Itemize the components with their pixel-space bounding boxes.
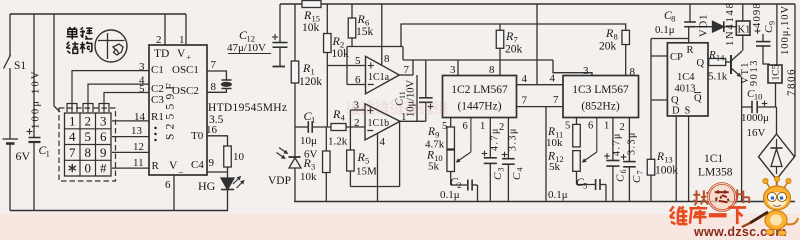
svg-text:7806: 7806 bbox=[786, 68, 798, 96]
svg-text:Q: Q bbox=[694, 93, 702, 104]
C11 plus bbox=[428, 106, 434, 108]
wire - left rail upper segment bbox=[9, 14, 11, 56]
svg-text:4: 4 bbox=[380, 136, 386, 148]
svg-text:1C1b: 1C1b bbox=[368, 118, 390, 129]
svg-text:_: _ bbox=[178, 164, 184, 174]
wire - crystal to OSC2 bbox=[207, 89, 226, 93]
wire - node A to C1cap bbox=[295, 126, 308, 128]
svg-text:100μ 10V: 100μ 10V bbox=[31, 69, 42, 129]
wire - D stub bbox=[675, 116, 677, 202]
svg-text:C: C bbox=[615, 174, 627, 182]
svg-text:4: 4 bbox=[550, 73, 556, 85]
resistor R14 (5.1k) bbox=[709, 59, 726, 66]
label R1 bbox=[302, 61, 315, 77]
svg-text:R1: R1 bbox=[151, 111, 164, 123]
C4 plus bbox=[502, 154, 508, 156]
capacitor C10 (1000μ) bbox=[751, 101, 753, 113]
capacitor C1 plus bbox=[27, 131, 33, 133]
svg-text:47μ/10V: 47μ/10V bbox=[227, 42, 266, 54]
label R4 bbox=[332, 107, 345, 123]
wire - R1 to node A bbox=[294, 83, 296, 127]
svg-text:2: 2 bbox=[85, 113, 92, 128]
svg-text:10: 10 bbox=[233, 151, 245, 163]
svg-text:1: 1 bbox=[311, 115, 315, 125]
svg-text:2: 2 bbox=[156, 34, 162, 46]
potentiometer R12 (5k) bbox=[573, 151, 581, 172]
capacitor C1 (10μ) bbox=[307, 121, 309, 133]
svg-text:8: 8 bbox=[85, 145, 92, 160]
svg-text:C3: C3 bbox=[151, 94, 164, 106]
wire - keypad row to chip pin 14 bbox=[112, 120, 149, 122]
wire - IC1a power pin bbox=[381, 4, 383, 65]
svg-text:3: 3 bbox=[311, 162, 315, 172]
svg-text:C: C bbox=[763, 25, 775, 33]
svg-text:6: 6 bbox=[588, 121, 593, 132]
photodiode VDP bbox=[294, 127, 296, 157]
svg-text:120k: 120k bbox=[299, 76, 322, 88]
pin 4 stub (IC1b) bbox=[377, 134, 379, 202]
svg-text:7: 7 bbox=[553, 94, 559, 106]
svg-text:C: C bbox=[492, 172, 504, 180]
svg-text:1000μ: 1000μ bbox=[741, 112, 769, 124]
pin 6 wire (V-) bbox=[173, 175, 175, 211]
svg-text:9: 9 bbox=[768, 21, 777, 25]
svg-text:C: C bbox=[631, 175, 643, 183]
svg-text:1.2k: 1.2k bbox=[328, 136, 348, 148]
wire - feedback line bbox=[347, 46, 403, 48]
label 结构 (second line) bbox=[66, 42, 78, 54]
wire - DC node bbox=[742, 106, 752, 108]
svg-text:5.1k: 5.1k bbox=[708, 71, 728, 83]
svg-text:15M: 15M bbox=[356, 166, 377, 178]
svg-text:4: 4 bbox=[340, 113, 345, 123]
svg-text:0.1μ: 0.1μ bbox=[655, 24, 675, 36]
wire - output pull-up line bbox=[401, 24, 626, 47]
wire - R6 to feedback line bbox=[351, 38, 353, 47]
svg-text:R: R bbox=[708, 49, 716, 61]
resistor 10 (HG limiter) bbox=[224, 146, 232, 167]
svg-text:13: 13 bbox=[131, 125, 143, 137]
svg-text:VD1: VD1 bbox=[699, 14, 710, 37]
wire - keypad col1 to chip pin bbox=[72, 71, 149, 113]
svg-text:9013: 9013 bbox=[749, 59, 760, 86]
wire - T0 to resistor bbox=[207, 136, 228, 146]
wire - R1 column from rail bbox=[294, 4, 296, 61]
svg-text:6V: 6V bbox=[16, 149, 31, 163]
relay K1 bbox=[742, 4, 744, 21]
svg-text:Q: Q bbox=[671, 95, 679, 106]
svg-text:0.1μ: 0.1μ bbox=[548, 189, 568, 201]
single-key icon circle bbox=[95, 30, 127, 62]
diode VD1 1N4148 bbox=[696, 26, 713, 28]
wire - keypad row to chip pin 12 bbox=[112, 151, 149, 153]
wire - pins 7 link bbox=[517, 106, 564, 108]
svg-text:0.1μ: 0.1μ bbox=[440, 189, 460, 201]
svg-text:6: 6 bbox=[463, 121, 468, 132]
svg-text:13: 13 bbox=[664, 155, 673, 165]
wire - keypad row to chip pin 11 bbox=[112, 167, 149, 169]
wire - rail corner to regulator bbox=[776, 4, 778, 65]
LED HG arrows bbox=[233, 177, 241, 185]
capacitor C9 bbox=[755, 30, 761, 32]
crystal X1 bbox=[222, 79, 232, 81]
resistor R4 (1.2k) bbox=[331, 124, 346, 131]
keypad column 1 tab bbox=[67, 104, 77, 113]
keypad cell grid bbox=[65, 113, 112, 176]
svg-text:7: 7 bbox=[404, 64, 410, 76]
watermark circle logo bbox=[693, 190, 708, 205]
wire - V+ drop to pins 4 bbox=[536, 4, 538, 85]
IC U1 S2559F box bbox=[149, 45, 207, 175]
pin 3 wire (IC1b) bbox=[350, 109, 365, 111]
capacitor C1 bbox=[29, 137, 41, 139]
svg-text:R: R bbox=[687, 45, 694, 56]
wire - Q lower stub bbox=[651, 99, 667, 101]
capacitor C4 (3.3μ) bbox=[507, 118, 509, 159]
svg-text:1C2 LM567: 1C2 LM567 bbox=[451, 84, 508, 96]
svg-text:11: 11 bbox=[133, 157, 144, 169]
resistor R5 (15M) bbox=[349, 110, 351, 150]
svg-text:4.7μ: 4.7μ bbox=[612, 132, 623, 156]
svg-text:14: 14 bbox=[716, 53, 725, 63]
svg-text:1: 1 bbox=[310, 67, 314, 77]
label R10 bbox=[426, 150, 443, 164]
wire - keypad col2 to chip pin bbox=[88, 84, 149, 113]
wire - R2 to node B bbox=[326, 53, 328, 128]
svg-text:3.3μ: 3.3μ bbox=[508, 127, 519, 151]
svg-text:6: 6 bbox=[165, 179, 171, 191]
bridge rectifier bbox=[759, 134, 795, 179]
svg-text:14: 14 bbox=[134, 111, 146, 123]
label R7 bbox=[505, 29, 518, 45]
chip ellipsis dots bbox=[154, 127, 156, 129]
svg-text:20k: 20k bbox=[599, 41, 617, 53]
capacitor C2 (0.1μ) bbox=[450, 172, 452, 186]
svg-text:R: R bbox=[427, 126, 435, 138]
wire - feedback to output bus bbox=[402, 47, 404, 61]
svg-text:5k: 5k bbox=[549, 161, 561, 173]
label C1 (10u) bbox=[304, 109, 316, 125]
label R9 bbox=[427, 126, 439, 140]
wire - pin9 C4 to LED node bbox=[207, 171, 228, 173]
svg-text:1C1a: 1C1a bbox=[368, 72, 390, 83]
C10 plus bbox=[762, 103, 768, 105]
svg-text:10k: 10k bbox=[546, 137, 563, 149]
capacitor C12 plus bbox=[272, 36, 278, 38]
wire - IC1a output bbox=[399, 74, 413, 76]
wire - OSC1 to crystal bbox=[207, 71, 226, 80]
wire - resistor to LED node bbox=[227, 167, 229, 178]
svg-text:3: 3 bbox=[139, 61, 145, 73]
label C5 bbox=[576, 177, 587, 191]
IC1a minus sign bbox=[368, 84, 374, 86]
wire - keypad row to chip pin 13 bbox=[112, 136, 149, 138]
C7 plus bbox=[621, 156, 627, 158]
svg-text:8: 8 bbox=[671, 14, 675, 24]
label R8 bbox=[605, 26, 618, 42]
svg-text:4.7μ: 4.7μ bbox=[490, 127, 501, 151]
svg-text:4: 4 bbox=[522, 73, 528, 85]
wire - CP stub bbox=[651, 55, 667, 57]
wire - R2 from rail bbox=[326, 4, 328, 34]
label R5 bbox=[357, 150, 370, 166]
wire - pins 7 to ground bbox=[545, 107, 547, 202]
svg-text:V: V bbox=[177, 48, 186, 60]
svg-text:VDP: VDP bbox=[268, 175, 291, 187]
LED HG bbox=[221, 178, 234, 190]
svg-text:0: 0 bbox=[85, 161, 92, 176]
IC U2 (1C2 LM567) box bbox=[443, 76, 517, 118]
capacitor C7 (3.3μ) bbox=[628, 118, 630, 162]
svg-text:5: 5 bbox=[583, 181, 587, 191]
svg-text:LM358: LM358 bbox=[698, 167, 733, 179]
resistor R6 (15k) bbox=[348, 18, 356, 38]
svg-text:6: 6 bbox=[355, 74, 361, 86]
watermark 维库一下 bbox=[670, 206, 746, 224]
svg-text:3: 3 bbox=[100, 113, 107, 128]
svg-text:7: 7 bbox=[636, 171, 645, 175]
svg-text:Q: Q bbox=[697, 58, 705, 69]
capacitor C8 (0.1μ) bbox=[689, 4, 691, 22]
svg-text:9: 9 bbox=[100, 145, 107, 160]
svg-text:R: R bbox=[656, 151, 664, 163]
resistor R11 (10k) bbox=[576, 118, 578, 125]
IC U3 (1C3 LM567) box bbox=[563, 76, 639, 118]
IC U5 (1C5 7806) bbox=[768, 65, 782, 83]
wire - reset node link bbox=[651, 38, 689, 40]
svg-text:V: V bbox=[169, 160, 178, 172]
svg-text:3.3μ: 3.3μ bbox=[627, 131, 638, 155]
label 单键 (top line) bbox=[67, 27, 78, 39]
C6 plus bbox=[604, 155, 610, 157]
wire - bus to IC2 pin3 bbox=[457, 60, 459, 76]
wire - right block top rail bbox=[280, 3, 302, 5]
svg-text:C1: C1 bbox=[151, 64, 164, 76]
battery B1 6V bbox=[3, 138, 19, 140]
svg-text:3: 3 bbox=[497, 168, 506, 172]
wire - bridge to bottom rail bbox=[776, 179, 778, 201]
svg-text:5: 5 bbox=[355, 55, 361, 67]
svg-text:4: 4 bbox=[516, 168, 525, 172]
svg-text:7: 7 bbox=[522, 95, 528, 107]
svg-text:C4: C4 bbox=[191, 159, 204, 171]
capacitor C6 (4.7μ) bbox=[612, 118, 614, 161]
wire - pin5 tap bbox=[327, 65, 365, 67]
label C2 bbox=[450, 177, 461, 191]
svg-text:4098: 4098 bbox=[752, 2, 763, 28]
watermark mascot bbox=[742, 176, 798, 235]
wire - both-outputs tie bbox=[416, 75, 418, 121]
svg-text:C: C bbox=[511, 172, 523, 180]
op-amp IC1a bbox=[366, 56, 400, 94]
switch S1 bbox=[4, 55, 11, 69]
wire - feedback to pin6 bbox=[346, 47, 348, 85]
wire - left block top rail bbox=[10, 13, 186, 15]
wire - regulator to DC node bbox=[775, 83, 777, 107]
op-amp IC1b bbox=[365, 104, 400, 140]
wire - C12 from rail bbox=[279, 4, 281, 43]
svg-text:8: 8 bbox=[489, 64, 495, 76]
label R11 bbox=[547, 126, 563, 140]
wire - left block bottom rail bbox=[10, 210, 228, 212]
svg-text:4: 4 bbox=[69, 129, 76, 144]
svg-text:1C5: 1C5 bbox=[772, 64, 782, 80]
svg-text:#: # bbox=[100, 161, 107, 176]
svg-text:OSC1: OSC1 bbox=[172, 64, 199, 76]
label C12 bbox=[239, 28, 255, 44]
svg-text:+: + bbox=[187, 53, 192, 62]
IC1b minus sign bbox=[367, 130, 373, 132]
svg-text:2: 2 bbox=[620, 122, 625, 133]
svg-text:5: 5 bbox=[565, 121, 570, 132]
svg-text:12: 12 bbox=[133, 141, 144, 153]
svg-text:TD: TD bbox=[154, 48, 169, 60]
svg-text:3.5: 3.5 bbox=[209, 114, 224, 126]
label C1 bbox=[39, 145, 50, 159]
wire - R5 bottom link bbox=[350, 186, 399, 188]
svg-text:5k: 5k bbox=[428, 161, 440, 173]
pin 2 wire (TD) bbox=[164, 14, 166, 45]
wire - right block bottom rail bbox=[294, 201, 795, 203]
decorative watermark row bbox=[347, 100, 448, 113]
wire - right edge bbox=[794, 4, 796, 157]
svg-text:15k: 15k bbox=[356, 26, 374, 38]
svg-text:T0: T0 bbox=[191, 130, 204, 142]
label R3 bbox=[303, 156, 316, 172]
keypad dashed box bbox=[59, 108, 116, 181]
label R13 bbox=[656, 151, 673, 165]
svg-text:D: D bbox=[672, 106, 680, 117]
capacitor C11 bbox=[425, 60, 427, 98]
svg-text:OSC2: OSC2 bbox=[172, 85, 199, 97]
svg-text:1: 1 bbox=[46, 149, 50, 159]
capacitor C5 (0.1μ) bbox=[576, 171, 578, 184]
svg-text:7: 7 bbox=[69, 145, 76, 160]
wire - keypad col3 to chip pin bbox=[104, 93, 149, 114]
svg-text:S: S bbox=[685, 106, 691, 117]
resistor R1 (120k) bbox=[291, 61, 299, 83]
resistor R7 (20k) bbox=[499, 24, 501, 30]
wire - R6 from rail bbox=[351, 4, 353, 18]
svg-text:9: 9 bbox=[209, 157, 215, 169]
svg-text:1: 1 bbox=[179, 34, 185, 46]
svg-text:20k: 20k bbox=[505, 44, 523, 56]
svg-text:5: 5 bbox=[85, 129, 92, 144]
keypad column 3 tab bbox=[99, 104, 109, 113]
svg-text:1: 1 bbox=[604, 121, 609, 132]
label R12 bbox=[547, 151, 564, 165]
IC U4 (1C4 4013) box bbox=[667, 43, 708, 116]
svg-text:10: 10 bbox=[754, 92, 763, 102]
svg-text:8: 8 bbox=[384, 53, 390, 65]
C3 plus bbox=[482, 153, 488, 155]
svg-text:100μ,10V: 100μ,10V bbox=[780, 5, 791, 55]
svg-text:5: 5 bbox=[139, 83, 145, 95]
wire - DC node to bridge bbox=[776, 107, 778, 134]
label R6 bbox=[357, 12, 370, 28]
wire - bus to IC3 pin3 bbox=[553, 60, 592, 76]
svg-text:(852Hz): (852Hz) bbox=[581, 101, 619, 113]
svg-text:8: 8 bbox=[211, 81, 217, 93]
svg-text:1C4: 1C4 bbox=[677, 72, 695, 83]
wire - keypad common drop bbox=[53, 14, 55, 106]
svg-text:S1: S1 bbox=[14, 60, 26, 72]
wire - pins 4 link bbox=[517, 84, 564, 86]
svg-text:3: 3 bbox=[450, 64, 456, 76]
svg-text:1C3 LM567: 1C3 LM567 bbox=[572, 84, 629, 96]
svg-text:HG: HG bbox=[198, 179, 216, 193]
pink bottom band bbox=[0, 214, 800, 240]
VDP light arrows bbox=[279, 148, 288, 154]
label R2 bbox=[332, 34, 345, 50]
svg-text:CP: CP bbox=[670, 52, 683, 63]
wire - output bus bbox=[403, 59, 553, 61]
resistor R8 (20k) bbox=[622, 30, 630, 44]
potentiometer R10 (5k) bbox=[447, 150, 455, 172]
svg-text:1N4148: 1N4148 bbox=[725, 1, 736, 46]
label C10 bbox=[747, 88, 762, 102]
svg-text:1C1: 1C1 bbox=[704, 153, 723, 165]
svg-text:1: 1 bbox=[480, 121, 485, 132]
svg-text:6: 6 bbox=[100, 129, 107, 144]
capacitor C12 bbox=[273, 42, 288, 44]
label R14 bbox=[708, 49, 725, 63]
resistor R15 bbox=[302, 1, 321, 8]
svg-text:10k: 10k bbox=[300, 171, 317, 183]
capacitor C3 (4.7μ) bbox=[489, 118, 491, 158]
svg-text:K1: K1 bbox=[738, 25, 751, 36]
resistor R9 (4.7k) bbox=[450, 118, 452, 128]
pin 1 wire (V+) bbox=[185, 14, 187, 45]
wire - S stub bbox=[688, 116, 690, 202]
svg-text:100k: 100k bbox=[655, 165, 678, 177]
wire - C1 column from top rail bbox=[33, 14, 35, 138]
svg-text:10k: 10k bbox=[302, 22, 320, 34]
resistor R2 (10k) bbox=[324, 34, 332, 53]
svg-text:5: 5 bbox=[365, 156, 369, 166]
keypad column 2 tab bbox=[83, 104, 93, 113]
label R15 bbox=[303, 8, 320, 24]
svg-text:7: 7 bbox=[211, 59, 217, 71]
IC1a plus sign bbox=[368, 65, 374, 67]
svg-text:R: R bbox=[152, 160, 160, 172]
label C8 bbox=[664, 10, 675, 24]
IC1b plus sign bbox=[367, 110, 373, 112]
svg-text:HTD19545MHz: HTD19545MHz bbox=[208, 102, 287, 114]
svg-text:4013: 4013 bbox=[675, 84, 696, 95]
resistor R13 (100k) bbox=[647, 159, 655, 175]
svg-text:10μ: 10μ bbox=[300, 135, 317, 147]
resistor R3 (10k) bbox=[325, 127, 327, 151]
svg-text:1: 1 bbox=[69, 113, 76, 128]
wire - IC1b output bbox=[400, 120, 426, 122]
svg-text:16V: 16V bbox=[747, 127, 766, 139]
transistor VT1 9013 bbox=[730, 55, 732, 74]
svg-text:1: 1 bbox=[401, 111, 407, 123]
svg-text:(1447Hz): (1447Hz) bbox=[457, 101, 501, 113]
svg-text:6: 6 bbox=[619, 170, 628, 174]
